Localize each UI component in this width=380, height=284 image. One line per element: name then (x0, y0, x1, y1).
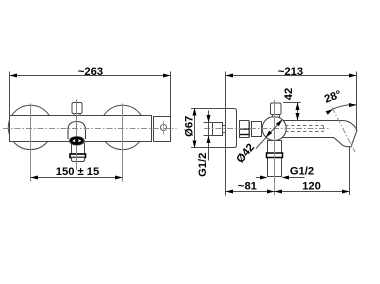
inlet square (G1/2 connector) (213, 123, 226, 136)
svg-text:G1/2: G1/2 (197, 153, 209, 177)
union nut B (252, 122, 262, 137)
right circle vertical centerline (122, 104, 124, 182)
front horizontal centerline (3, 128, 177, 130)
wall flange (side) (226, 109, 237, 148)
inclined spout centerline 28deg (332, 108, 355, 153)
svg-text:28°: 28° (323, 89, 343, 106)
spout lower cylinder (front) (72, 143, 85, 154)
svg-text:Ø42: Ø42 (234, 142, 257, 166)
svg-text:~81: ~81 (238, 181, 257, 193)
mixer body (front) (10, 116, 152, 142)
side horizontal centerline (204, 128, 330, 130)
spout tube (side) (280, 121, 357, 147)
dimension ~81 and 120 (226, 181, 350, 194)
aerator ellipse (69, 137, 84, 145)
union nut A (240, 121, 250, 138)
diverter knob (front) (72, 103, 82, 116)
right end block (154, 117, 171, 142)
spout bottom cap (front) (72, 158, 85, 162)
svg-text:42: 42 (283, 88, 295, 100)
svg-text:120: 120 (302, 181, 321, 193)
side vertical centerline (274, 100, 276, 195)
svg-text:150 ± 15: 150 ± 15 (56, 166, 99, 178)
diverter knob (side) (271, 103, 282, 117)
dimension G1/2 shower outlet (256, 165, 314, 179)
left circle vertical centerline (30, 104, 32, 182)
dimension ~213 (226, 66, 357, 196)
spout dome (front, end-on) (68, 122, 86, 140)
right escutcheon circle (100, 105, 144, 149)
dimension 28deg arc (323, 89, 357, 115)
shower outlet pipe (268, 141, 282, 177)
dimension G1/2 inlet (197, 111, 213, 177)
spout mouth extension line (349, 147, 351, 195)
svg-text:~213: ~213 (278, 66, 303, 78)
dimension diameter 67 (flange) (183, 108, 225, 148)
dimension 150 +/- 15 (31, 166, 123, 180)
svg-text:Ø67: Ø67 (183, 116, 195, 137)
left escutcheon circle (8, 105, 52, 149)
dimension ~263 (10, 66, 171, 117)
shower pipe ring band (267, 153, 283, 158)
spout ring band (front) (70, 154, 86, 158)
svg-text:G1/2: G1/2 (290, 165, 314, 177)
svg-text:~263: ~263 (78, 66, 103, 78)
mixer body circle (side) (262, 117, 286, 141)
spout bore hidden lines (285, 126, 324, 132)
end block screw circle (160, 121, 166, 135)
dimension diameter 42 (body circle) (234, 119, 282, 165)
step rings (250, 121, 252, 137)
dimension 42 (knob height) (283, 88, 301, 121)
front center vertical centerline (76, 100, 78, 171)
